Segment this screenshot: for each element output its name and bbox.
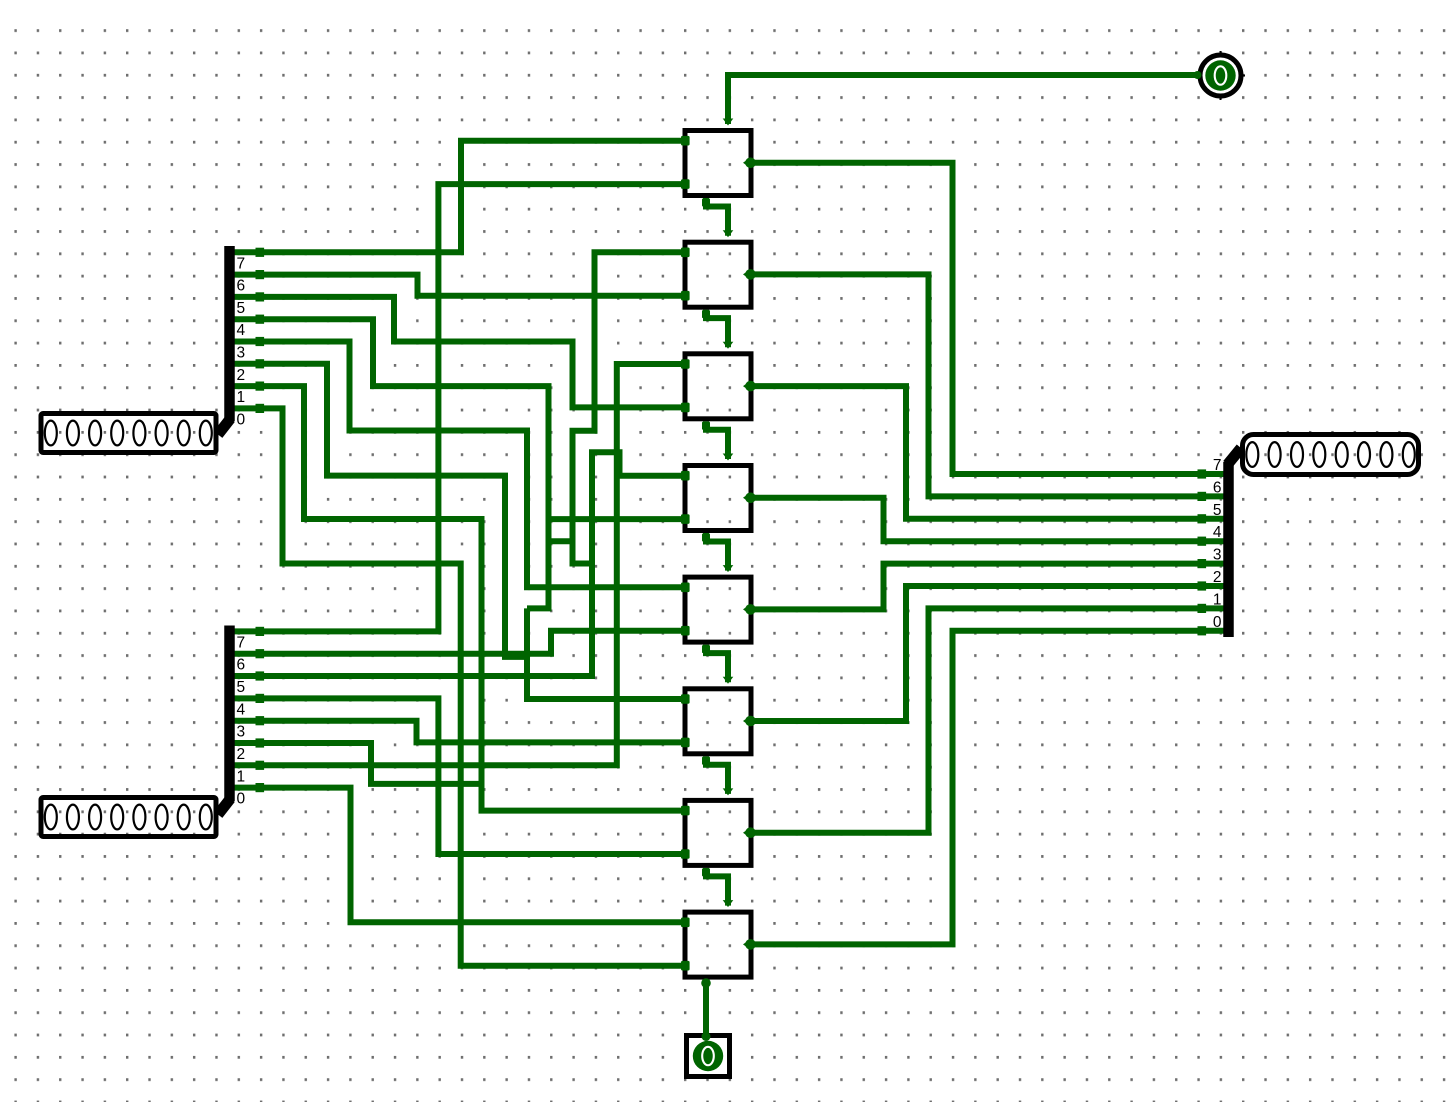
svg-text:3: 3 xyxy=(1213,547,1222,564)
subcircuit full-adder box U5 xyxy=(685,577,751,642)
sum s5 box3 xyxy=(754,386,1225,519)
wire carry box2-box3 xyxy=(706,310,728,348)
wire carry box7-box8 xyxy=(706,868,728,906)
svg-text:6: 6 xyxy=(1213,479,1222,496)
subcircuit full-adder box U2 xyxy=(685,242,751,307)
wire A3 to box5.A xyxy=(234,342,683,588)
svg-text:7: 7 xyxy=(1213,457,1222,474)
wire B3 to box6.B xyxy=(234,721,683,743)
svg-text:0: 0 xyxy=(237,411,246,428)
svg-text:4: 4 xyxy=(237,322,246,339)
svg-text:1: 1 xyxy=(1213,591,1222,608)
wire A5 to box3.B xyxy=(234,297,683,408)
output pin S (8-bit) xyxy=(1243,435,1419,475)
wire carry box3-box4 xyxy=(706,421,728,459)
wire box2.A feeder snake xyxy=(573,252,683,563)
output splitter spine xyxy=(1228,448,1242,465)
svg-text:0: 0 xyxy=(237,791,246,808)
sum s3 box5 xyxy=(754,564,1225,610)
input pin A (8-bit) xyxy=(41,414,216,453)
splitter A spine xyxy=(218,419,231,435)
svg-text:7: 7 xyxy=(237,634,246,651)
subcircuit full-adder box U1 xyxy=(685,131,751,196)
wire B1 to box3.A xyxy=(234,364,683,765)
svg-text:3: 3 xyxy=(237,345,246,362)
wire A4 to box4.B xyxy=(234,319,683,519)
wire carry box1-box2 xyxy=(706,198,728,236)
svg-text:2: 2 xyxy=(1213,569,1222,586)
sum s4 box4 xyxy=(754,498,1225,541)
sum s0 box8 xyxy=(754,631,1225,945)
wire A0 to box8.B xyxy=(234,408,683,965)
wire A2 jog xyxy=(234,364,527,657)
wire B6 to box5.B xyxy=(234,631,683,654)
svg-text:6: 6 xyxy=(237,278,246,295)
input pin Cin (carry in) xyxy=(687,1032,730,1077)
svg-text:4: 4 xyxy=(237,701,246,718)
wire carry box4-box5 xyxy=(706,533,728,571)
box U7 pin markers xyxy=(681,806,690,816)
subcircuit full-adder box U3 xyxy=(685,354,751,419)
wire col527 to box6.A xyxy=(527,608,683,699)
svg-text:2: 2 xyxy=(237,746,246,763)
svg-text:5: 5 xyxy=(237,679,246,696)
wire B4 to box7.B xyxy=(234,698,683,854)
subcircuit full-adder box U8 xyxy=(685,912,751,977)
subcircuit full-adder box U6 xyxy=(685,689,751,754)
wire B7 to box1.B xyxy=(234,184,683,631)
svg-text:2: 2 xyxy=(237,367,246,384)
svg-text:1: 1 xyxy=(237,768,246,785)
wire A6 to box2.B xyxy=(234,275,683,296)
box U6 pin markers xyxy=(681,694,690,704)
sum s6 box2 xyxy=(754,274,1225,496)
splitter B leg nubs xyxy=(256,627,265,636)
wire col548 segment xyxy=(527,519,549,608)
subcircuit full-adder box U7 xyxy=(685,800,751,865)
wire carry-out top to pin Cout xyxy=(728,75,1197,124)
sum s7 box1 xyxy=(754,163,1225,474)
output pin Cout (carry out) xyxy=(1194,51,1246,100)
wire carry box5-box6 xyxy=(706,645,728,683)
sum s1 box7 xyxy=(754,608,1225,832)
carry-out bottom wire end nub xyxy=(701,978,711,988)
wire carry-in bottom xyxy=(703,980,709,1033)
box U3 pin markers xyxy=(681,359,690,369)
box U8 pin markers xyxy=(681,918,690,928)
splitter B spine xyxy=(218,799,231,815)
svg-text:5: 5 xyxy=(237,300,246,317)
wire B2 jog xyxy=(234,743,482,784)
svg-text:1: 1 xyxy=(237,389,246,406)
subcircuit full-adder box U4 xyxy=(685,466,751,531)
splitter A leg nubs xyxy=(256,248,265,257)
box U1 pin markers xyxy=(681,136,690,146)
box U2 pin markers xyxy=(681,248,690,258)
wire B5 to box4.A xyxy=(234,452,683,676)
wire row541 segment xyxy=(549,538,573,544)
right splitter leg nubs xyxy=(1198,469,1207,478)
svg-text:7: 7 xyxy=(237,255,246,272)
svg-text:4: 4 xyxy=(1213,524,1222,541)
input pin B (8-bit) xyxy=(41,798,216,837)
wire A7 to box1.A xyxy=(234,141,683,253)
svg-text:6: 6 xyxy=(237,657,246,674)
sum s2 box6 xyxy=(754,586,1225,721)
box U5 pin markers xyxy=(681,583,690,593)
wire carry box6-box7 xyxy=(706,756,728,794)
svg-text:3: 3 xyxy=(237,724,246,741)
svg-text:5: 5 xyxy=(1213,502,1222,519)
wire B0 to box8.A xyxy=(234,788,683,923)
box U4 pin markers xyxy=(681,471,690,481)
wire A1 to box7.A xyxy=(234,386,683,810)
svg-text:0: 0 xyxy=(1213,614,1222,631)
